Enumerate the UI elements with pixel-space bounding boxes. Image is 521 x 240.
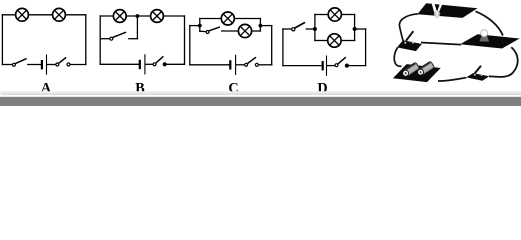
- wire lower branch left D: [315, 40, 328, 42]
- switch bottom-right (pictorial): [466, 66, 489, 81]
- wire riser junction-to-branch B: [136, 16, 138, 39]
- lamp L1 (C): [221, 12, 234, 25]
- wire left edge A: [1, 15, 3, 65]
- wire top-lamp-to-left-switch: [399, 14, 418, 41]
- switch S1 (A): [12, 59, 26, 67]
- battery (B): [140, 54, 145, 74]
- wire right edge C: [271, 26, 273, 65]
- wire lower branch to switch C: [200, 30, 206, 32]
- wire branch-left B: [100, 38, 109, 40]
- wire switch2-to-corner A: [70, 64, 86, 66]
- wire left edge B: [99, 16, 101, 64]
- wire bottom-left C: [190, 64, 229, 66]
- wire riser right D: [354, 15, 356, 41]
- wire riser-left upper branch C: [199, 19, 201, 26]
- wire right edge D: [365, 29, 367, 66]
- wire switch-to-corner B: [165, 63, 185, 65]
- wire upper branch right C: [234, 18, 260, 20]
- lamp holder right (pictorial): [460, 30, 520, 49]
- wire lever-to-junction D: [306, 28, 315, 30]
- wire drop-left lower branch C: [199, 26, 201, 32]
- wire bottom-left B: [100, 63, 138, 65]
- wire right-lamp-to-right-switch arc: [489, 47, 518, 77]
- junction node D-right: [353, 27, 357, 31]
- lamp L1 (A): [16, 8, 29, 21]
- wire upper branch left C: [200, 18, 222, 20]
- wire switch-to-corner C: [258, 64, 271, 66]
- cell 2: [416, 61, 435, 77]
- battery (D): [323, 56, 327, 76]
- wire upper branch left D: [315, 14, 328, 16]
- lamp holder top (pictorial): [417, 3, 477, 19]
- wire junction-to-corner D: [355, 28, 366, 30]
- wire top-lamp-to-right-lamp arc: [476, 11, 503, 35]
- battery (A): [42, 54, 47, 74]
- battery pack (pictorial): [393, 61, 441, 82]
- junction node D-left: [313, 27, 317, 31]
- switch S2 (D): [335, 57, 349, 67]
- wire lower branch right D: [341, 40, 355, 42]
- wire top A: [2, 14, 85, 16]
- wire right edge A: [85, 15, 87, 65]
- switch S2 (A): [56, 57, 70, 66]
- separator thin line: [0, 91, 521, 94]
- switch S1 branch (C): [206, 27, 220, 34]
- lamp L1 (B): [113, 10, 126, 23]
- wire battery-to-switch C: [237, 64, 245, 66]
- cell 1: [401, 62, 420, 78]
- wire right edge B: [184, 16, 186, 64]
- switch S1 top (D): [292, 22, 305, 31]
- wire battery-to-right-switch: [438, 78, 466, 81]
- wire riser-down left D: [314, 29, 316, 41]
- wire riser-right upper branch C: [259, 19, 261, 26]
- switch S1 branch (B): [110, 32, 126, 40]
- wire riser-right lower branch C: [259, 26, 261, 31]
- wire top-left D: [283, 28, 292, 30]
- junction node C-right: [259, 24, 263, 28]
- wire upper branch right D: [342, 14, 355, 16]
- bottom grey bar: [0, 97, 521, 106]
- wire riser-up left D: [314, 15, 316, 30]
- wire lever-to-lamp2 C: [222, 30, 239, 32]
- lamp L2 (A): [53, 8, 66, 21]
- wire bottom-left A: [2, 64, 12, 66]
- junction node C-left: [198, 24, 202, 28]
- lamp L2 (B): [151, 10, 164, 23]
- wire lamp2-to-riser C: [252, 30, 261, 32]
- wire left-switch-to-right-lamp: [421, 43, 461, 45]
- wire left edge D: [282, 29, 284, 66]
- wire branch-right B: [129, 38, 138, 40]
- lamp L1 (D): [328, 8, 341, 21]
- wire switch1-to-battery A: [28, 64, 41, 66]
- battery (C): [230, 55, 235, 75]
- switch S2 (C): [245, 57, 259, 66]
- wire battery-to-switch B: [146, 63, 153, 65]
- wire battery-to-switch2 A: [48, 64, 56, 66]
- wire switch-to-corner D: [347, 65, 366, 67]
- wire left-switch-to-battery: [394, 48, 401, 67]
- wire top B: [100, 15, 184, 17]
- lamp L2 (D): [328, 34, 341, 47]
- wire top-left C: [190, 25, 200, 27]
- wire left edge C: [189, 26, 191, 65]
- junction node B: [136, 14, 140, 18]
- switch left (pictorial): [397, 31, 422, 51]
- wire top-right C: [260, 25, 271, 27]
- lamp L2 (C): [238, 24, 251, 37]
- wire battery-to-switch D: [328, 65, 335, 67]
- wire bottom-left D: [283, 65, 321, 67]
- switch S2 (B): [153, 56, 166, 66]
